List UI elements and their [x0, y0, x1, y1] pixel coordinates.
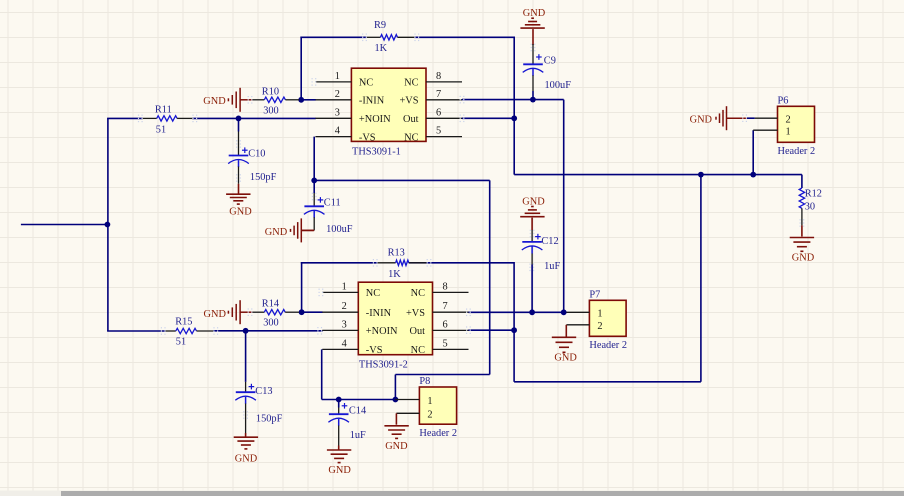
svg-text:GND: GND [554, 352, 577, 363]
svg-text:Header 2: Header 2 [589, 340, 627, 351]
svg-text:NC: NC [411, 345, 425, 356]
svg-text:C14: C14 [349, 405, 367, 416]
svg-text:51: 51 [176, 336, 186, 347]
svg-text:1K: 1K [375, 43, 388, 54]
svg-text:R11: R11 [155, 105, 172, 116]
svg-text:8: 8 [443, 281, 448, 292]
svg-text:-VS: -VS [366, 345, 383, 356]
svg-text:+VS: +VS [399, 96, 418, 107]
svg-text:GND: GND [523, 8, 546, 19]
svg-text:R12: R12 [805, 188, 822, 199]
svg-text:5: 5 [436, 126, 441, 137]
svg-text:NC: NC [404, 132, 418, 143]
svg-text:GND: GND [328, 465, 351, 476]
svg-text:2: 2 [335, 89, 340, 100]
svg-text:1uF: 1uF [544, 261, 560, 272]
svg-text:-VS: -VS [359, 132, 376, 143]
svg-text:1: 1 [342, 281, 347, 292]
svg-text:4: 4 [342, 338, 348, 349]
svg-text:1: 1 [597, 309, 602, 320]
svg-text:+NOIN: +NOIN [366, 326, 398, 337]
svg-text:2: 2 [342, 301, 347, 312]
svg-text:P8: P8 [419, 376, 430, 387]
svg-text:2: 2 [597, 321, 602, 332]
svg-text:P6: P6 [778, 96, 789, 107]
svg-text:NC: NC [359, 78, 373, 89]
svg-text:Header 2: Header 2 [419, 428, 457, 439]
svg-text:GND: GND [522, 196, 545, 207]
svg-text:R15: R15 [175, 317, 192, 328]
svg-text:Out: Out [409, 326, 425, 337]
svg-text:150pF: 150pF [256, 413, 283, 424]
svg-text:C11: C11 [324, 198, 341, 209]
svg-text:R9: R9 [374, 20, 386, 31]
svg-text:GND: GND [229, 206, 252, 217]
svg-text:GND: GND [385, 441, 408, 452]
svg-text:7: 7 [443, 301, 448, 312]
svg-text:6: 6 [443, 319, 448, 330]
svg-text:3: 3 [335, 107, 340, 118]
svg-text:GND: GND [235, 454, 258, 465]
svg-text:THS3091-1: THS3091-1 [352, 146, 401, 157]
svg-text:GND: GND [690, 115, 713, 126]
svg-text:THS3091-2: THS3091-2 [359, 360, 408, 371]
svg-text:P7: P7 [589, 290, 600, 301]
svg-text:NC: NC [404, 78, 418, 89]
svg-text:NC: NC [411, 288, 425, 299]
svg-text:NC: NC [366, 288, 380, 299]
svg-text:R13: R13 [388, 247, 405, 258]
svg-text:7: 7 [436, 89, 441, 100]
svg-text:300: 300 [263, 318, 279, 329]
svg-text:51: 51 [156, 125, 166, 136]
svg-text:1: 1 [335, 71, 340, 82]
svg-text:+NOIN: +NOIN [359, 114, 391, 125]
svg-text:C10: C10 [248, 149, 265, 160]
svg-text:8: 8 [436, 71, 441, 82]
svg-text:100uF: 100uF [545, 80, 572, 91]
svg-text:3: 3 [342, 319, 347, 330]
svg-text:2: 2 [427, 410, 432, 421]
svg-text:2: 2 [786, 115, 791, 126]
svg-text:1K: 1K [388, 269, 401, 280]
svg-text:Header 2: Header 2 [778, 146, 816, 157]
svg-text:GND: GND [203, 96, 226, 107]
svg-text:150pF: 150pF [250, 172, 277, 183]
svg-text:C13: C13 [255, 386, 272, 397]
svg-text:GND: GND [265, 227, 288, 238]
svg-text:R14: R14 [262, 299, 280, 310]
svg-text:300: 300 [263, 106, 279, 117]
svg-text:1: 1 [786, 127, 791, 138]
svg-text:30: 30 [805, 202, 815, 213]
svg-text:C9: C9 [544, 56, 556, 67]
svg-text:-ININ: -ININ [359, 96, 385, 107]
svg-text:Out: Out [403, 114, 419, 125]
svg-text:100uF: 100uF [326, 224, 353, 235]
svg-text:GND: GND [204, 309, 227, 320]
svg-text:R10: R10 [262, 87, 279, 98]
svg-text:1: 1 [427, 396, 432, 407]
svg-text:+VS: +VS [406, 308, 425, 319]
svg-text:4: 4 [335, 126, 341, 137]
svg-text:C12: C12 [541, 236, 558, 247]
svg-text:1uF: 1uF [350, 430, 366, 441]
svg-text:5: 5 [443, 338, 448, 349]
svg-text:6: 6 [436, 107, 441, 118]
svg-text:-ININ: -ININ [366, 308, 392, 319]
svg-text:GND: GND [792, 253, 815, 264]
